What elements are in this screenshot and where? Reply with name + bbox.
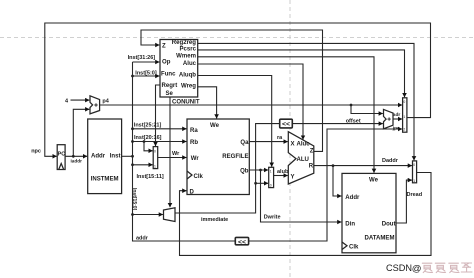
svg-text:Daddr: Daddr <box>382 158 399 164</box>
svg-text:1: 1 <box>413 179 415 183</box>
svg-text:Wr: Wr <box>172 151 180 157</box>
svg-text:Addr: Addr <box>91 154 106 160</box>
svg-text:@: @ <box>412 263 422 274</box>
svg-text:Y: Y <box>291 174 295 180</box>
svg-text:R: R <box>309 164 314 170</box>
svg-text:offset: offset <box>346 119 361 125</box>
svg-text:<<: << <box>282 121 290 128</box>
svg-text:REGFILE: REGFILE <box>222 154 248 160</box>
svg-text:2: 2 <box>403 128 405 132</box>
svg-text:adr: adr <box>393 112 401 118</box>
svg-text:0: 0 <box>154 150 156 154</box>
svg-text:ALU: ALU <box>297 157 309 163</box>
svg-text:Wreg: Wreg <box>181 84 196 90</box>
svg-text:alub: alub <box>277 169 289 175</box>
svg-text:Inst[15:0]: Inst[15:0] <box>131 188 137 211</box>
svg-text:Dout: Dout <box>382 222 396 228</box>
svg-text:Inst[15:11]: Inst[15:11] <box>137 174 164 180</box>
svg-text:Aluqb: Aluqb <box>179 72 196 78</box>
svg-text:D: D <box>190 189 195 195</box>
svg-text:1: 1 <box>154 165 156 169</box>
svg-text:Reg2reg: Reg2reg <box>172 40 197 46</box>
svg-text:Inst[5:0]: Inst[5:0] <box>135 71 157 77</box>
svg-text:Clk: Clk <box>194 174 204 180</box>
svg-text:We: We <box>369 177 379 183</box>
svg-text:Ra: Ra <box>190 128 198 134</box>
svg-text:immediate: immediate <box>201 217 228 223</box>
svg-text:Z: Z <box>162 44 166 50</box>
svg-text:p4: p4 <box>102 98 109 104</box>
svg-text:npc: npc <box>31 148 41 154</box>
svg-text:Aluc: Aluc <box>183 61 197 67</box>
svg-text:0: 0 <box>413 163 415 167</box>
svg-text:We: We <box>210 123 220 129</box>
svg-text:iaddr: iaddr <box>71 159 83 164</box>
svg-text:Pcsrc: Pcsrc <box>180 47 197 53</box>
svg-text:Regrt: Regrt <box>162 83 178 89</box>
svg-text:Se: Se <box>166 91 174 97</box>
svg-text:Inst[25:21]: Inst[25:21] <box>134 122 162 128</box>
svg-text:1: 1 <box>270 170 272 174</box>
svg-text:Dwrite: Dwrite <box>264 214 281 220</box>
svg-text:CSDN: CSDN <box>386 263 412 273</box>
svg-text:PC: PC <box>58 152 66 158</box>
svg-text:Func: Func <box>161 72 176 78</box>
svg-text:Inst[31:26]: Inst[31:26] <box>128 55 156 61</box>
svg-text:Op: Op <box>162 59 171 65</box>
svg-text:Qb: Qb <box>240 168 249 174</box>
svg-text:Inst[20:16]: Inst[20:16] <box>134 135 162 141</box>
svg-text:addr: addr <box>136 236 149 242</box>
svg-text:Wr: Wr <box>191 156 200 162</box>
svg-text:CONUNIT: CONUNIT <box>172 100 200 106</box>
svg-text:Wmem: Wmem <box>176 54 196 60</box>
svg-text:Rb: Rb <box>190 140 198 146</box>
svg-text:X: X <box>291 141 295 147</box>
svg-text:Din: Din <box>345 222 355 228</box>
svg-text:Z: Z <box>310 148 314 154</box>
svg-text:DATAMEM: DATAMEM <box>364 235 394 241</box>
svg-text:0: 0 <box>403 100 405 104</box>
svg-text:Dread: Dread <box>407 192 423 198</box>
svg-text:Inst: Inst <box>110 154 121 160</box>
svg-text:0: 0 <box>270 184 272 188</box>
svg-text:<<: << <box>238 239 246 246</box>
svg-text:jpc: jpc <box>392 125 400 131</box>
svg-text:Aluc: Aluc <box>297 141 311 147</box>
svg-text:Clk: Clk <box>349 245 359 251</box>
svg-text:Qa: Qa <box>240 140 249 146</box>
svg-text:INSTMEM: INSTMEM <box>91 177 119 183</box>
svg-text:Addr: Addr <box>345 195 360 201</box>
svg-text:1: 1 <box>403 115 405 119</box>
